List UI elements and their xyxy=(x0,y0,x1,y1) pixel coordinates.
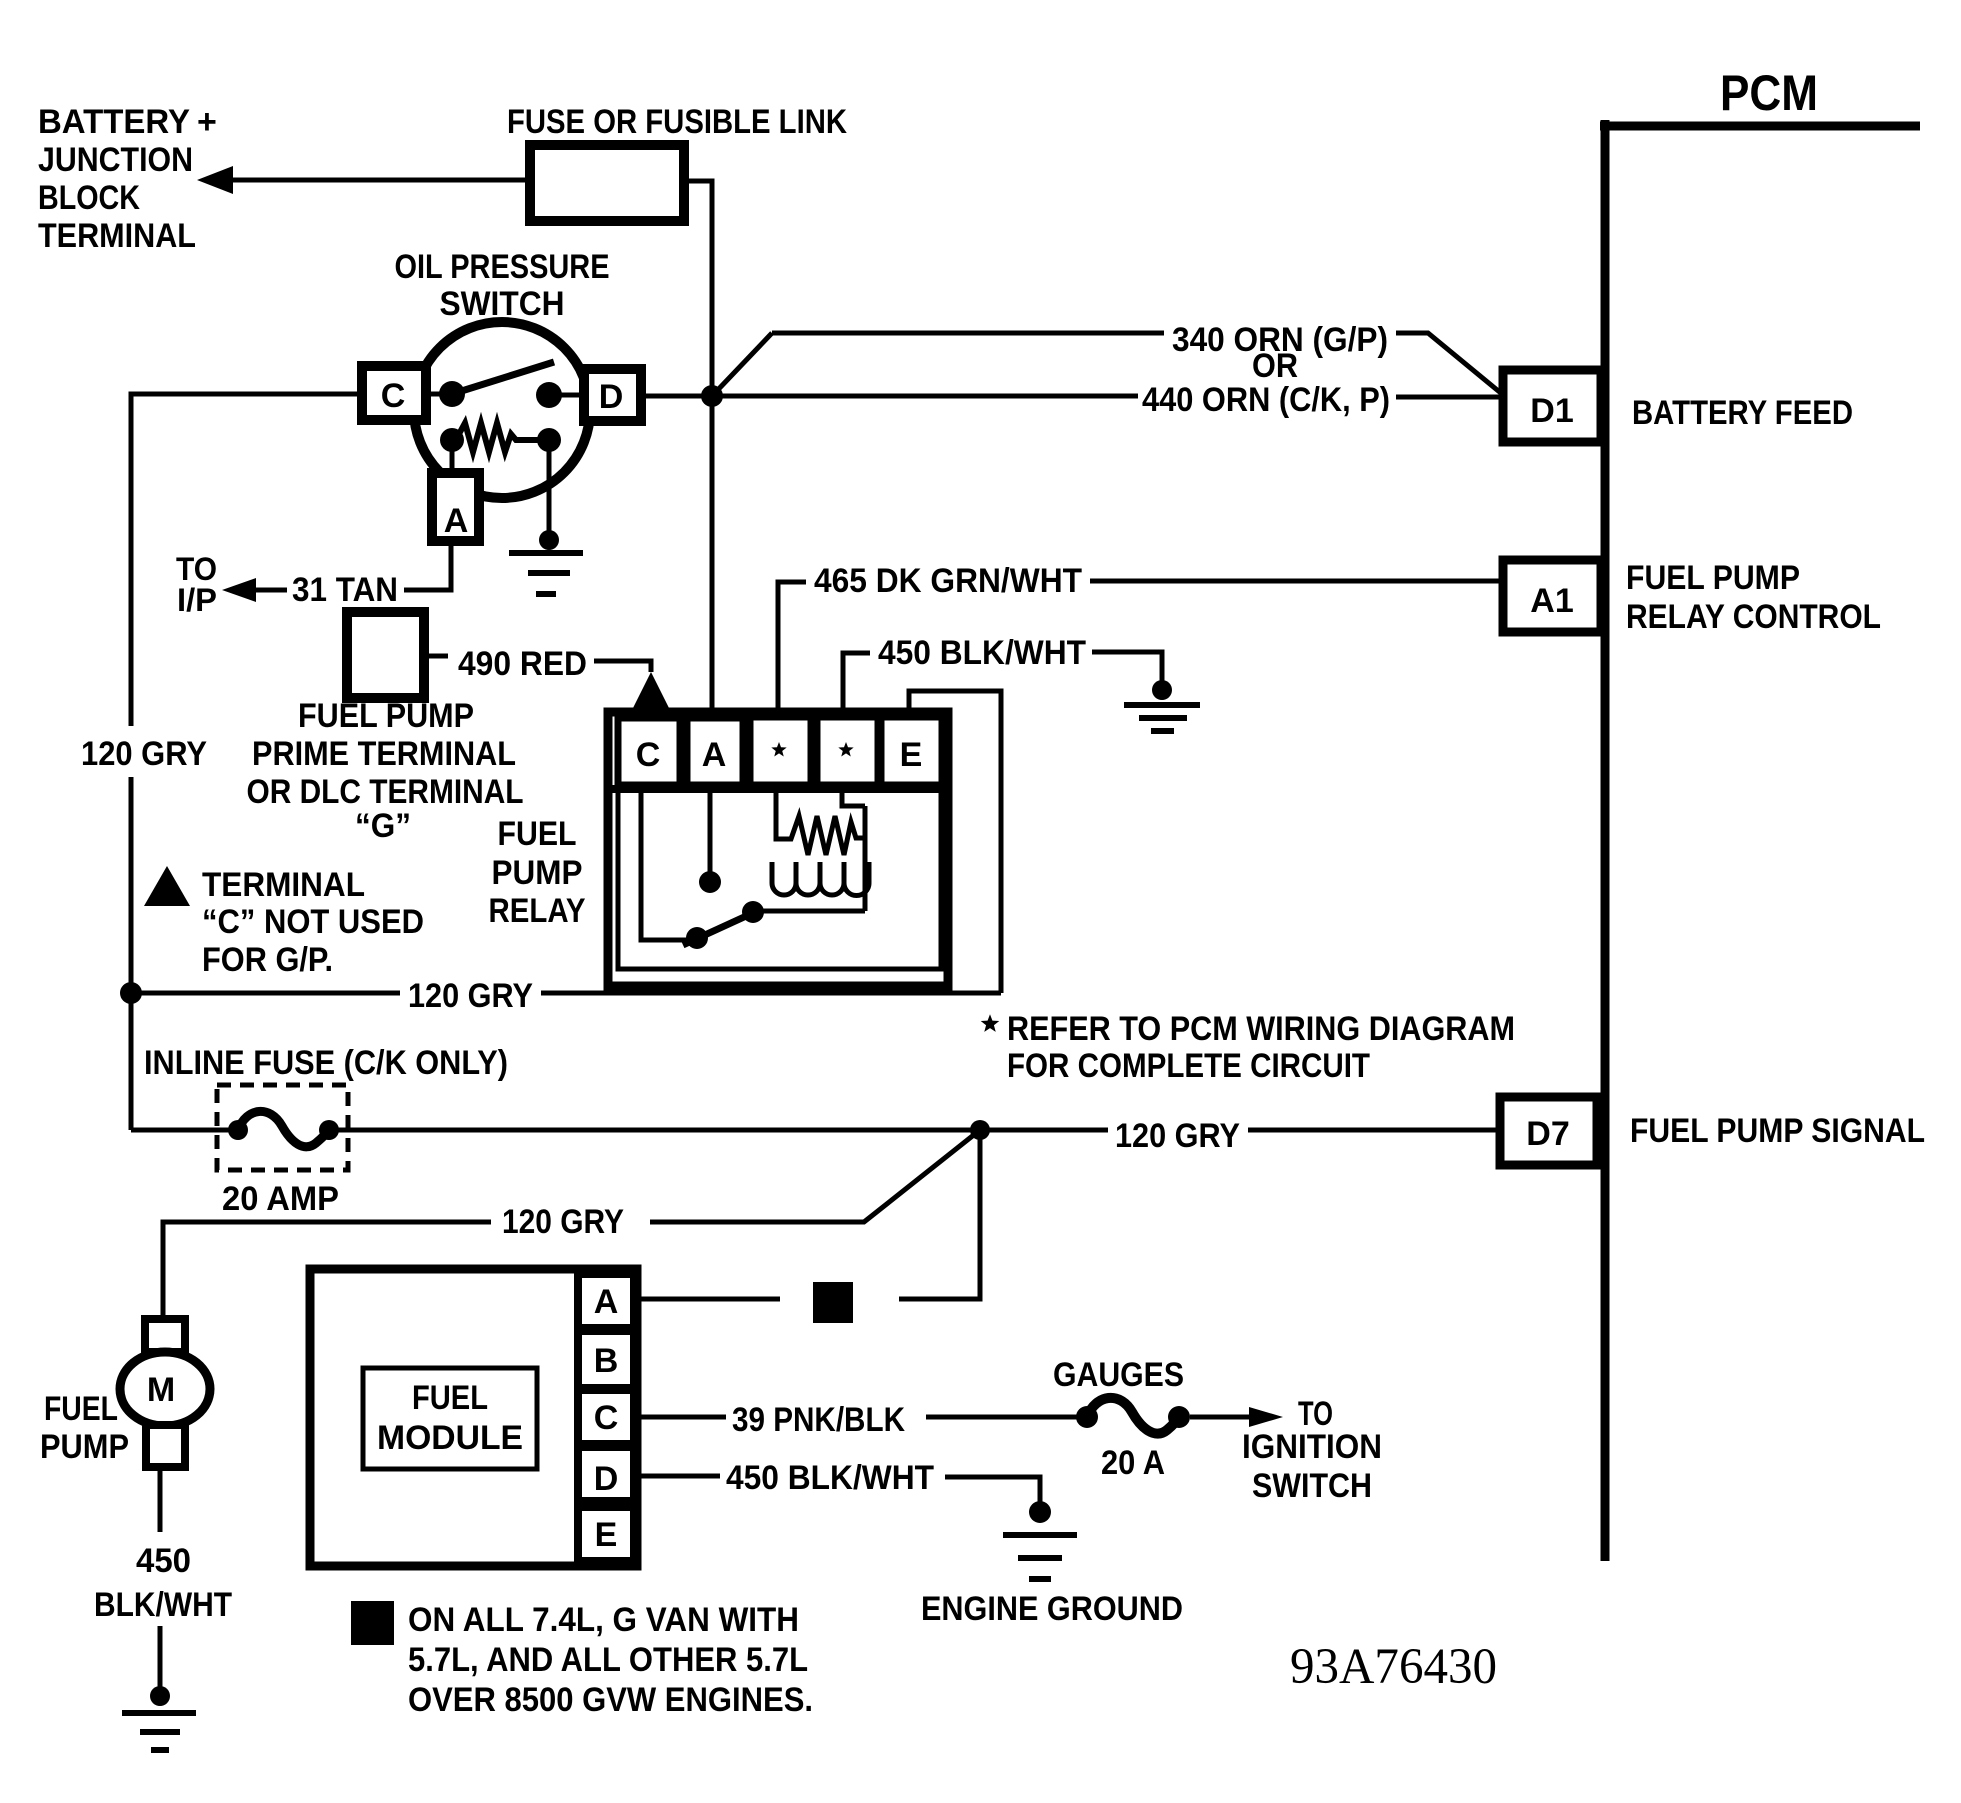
wire 465 DK GRN/WHT stub down to relay coil xyxy=(778,582,806,717)
module terminal E xyxy=(578,1507,634,1561)
svg-text:“G”: “G” xyxy=(355,807,411,845)
relay terminal E xyxy=(881,717,942,785)
connector pin A1 xyxy=(1503,560,1601,632)
svg-text:120 GRY: 120 GRY xyxy=(408,977,533,1015)
terminal D box of oil switch xyxy=(584,369,641,421)
svg-text:D1: D1 xyxy=(1530,392,1573,430)
relay coil xyxy=(772,792,869,896)
svg-text:IGNITION: IGNITION xyxy=(1242,1428,1382,1466)
relay terminal star 1 xyxy=(750,717,811,785)
svg-text:A: A xyxy=(702,736,727,774)
label FUEL PUMP PRIME TERMINAL OR DLC TERMINAL "G" xyxy=(247,697,524,845)
svg-text:450 BLK/WHT: 450 BLK/WHT xyxy=(878,634,1086,672)
svg-text:465 DK GRN/WHT: 465 DK GRN/WHT xyxy=(814,562,1082,600)
module terminal D xyxy=(578,1447,634,1501)
relay internal wire from arm to coil side xyxy=(753,806,865,911)
svg-text:450 BLK/WHT: 450 BLK/WHT xyxy=(726,1459,934,1497)
svg-text:A: A xyxy=(444,502,469,540)
svg-text:E: E xyxy=(595,1516,618,1554)
fuel pump prime terminal square xyxy=(347,612,424,698)
svg-text:B: B xyxy=(594,1342,619,1380)
svg-text:+: + xyxy=(197,103,217,141)
wire oil switch lower-left dot to terminal A xyxy=(450,448,455,478)
wire 450 BLK/WHT to ground xyxy=(1092,652,1162,684)
svg-text:ON ALL 7.4L, G VAN WITH: ON ALL 7.4L, G VAN WITH xyxy=(408,1601,799,1639)
fuel module body xyxy=(310,1269,637,1566)
ground below oil pressure switch xyxy=(509,530,583,594)
PCM module boundary xyxy=(1600,65,1920,1561)
label FUEL PUMP RELAY CONTROL xyxy=(1626,559,1881,636)
wire junction down to module A xyxy=(637,1130,980,1299)
svg-text:OR DLC TERMINAL: OR DLC TERMINAL xyxy=(247,773,524,811)
svg-text:FOR G/P.: FOR G/P. xyxy=(202,941,333,979)
svg-text:PUMP: PUMP xyxy=(40,1428,129,1466)
relay terminal star 2 xyxy=(817,717,878,785)
svg-text:FUEL PUMP: FUEL PUMP xyxy=(1626,559,1800,597)
svg-text:120 GRY: 120 GRY xyxy=(81,735,207,773)
relay K1 FUEL PUMP RELAY label xyxy=(489,815,586,930)
wire relay E up and over to 120 GRY xyxy=(909,691,1001,993)
svg-text:M: M xyxy=(147,1371,175,1409)
wire 465 DK GRN/WHT to PCM A1 xyxy=(1090,579,1503,584)
svg-text:BLK/WHT: BLK/WHT xyxy=(94,1586,232,1624)
svg-text:FUSE OR FUSIBLE LINK: FUSE OR FUSIBLE LINK xyxy=(507,103,847,141)
svg-text:20 A: 20 A xyxy=(1101,1444,1165,1482)
engine ground symbol xyxy=(1003,1501,1077,1579)
note REFER TO PCM WIRING DIAGRAM xyxy=(981,1010,1515,1085)
fuse F1 FUSE OR FUSIBLE LINK xyxy=(507,103,847,221)
fuel pump relay K1 body xyxy=(608,712,948,986)
module terminal B xyxy=(578,1331,634,1388)
wire 31 TAN with arrow xyxy=(222,544,451,609)
junction node on signal wire xyxy=(970,1120,990,1140)
connector pin D1 xyxy=(1503,370,1601,442)
svg-text:OVER 8500 GVW ENGINES.: OVER 8500 GVW ENGINES. xyxy=(408,1681,813,1719)
fuel module inner label box xyxy=(363,1368,537,1469)
svg-text:SWITCH: SWITCH xyxy=(1252,1467,1372,1505)
svg-text:GAUGES: GAUGES xyxy=(1053,1356,1184,1394)
wire module D 450 BLK/WHT to engine ground xyxy=(637,1476,1040,1502)
triangle marker at relay terminal C xyxy=(631,672,671,712)
wire fuel pump signal 120 GRY to D7 xyxy=(131,1128,1503,1133)
svg-text:TERMINAL: TERMINAL xyxy=(202,866,365,904)
svg-text:5.7L, AND ALL OTHER 5.7L: 5.7L, AND ALL OTHER 5.7L xyxy=(408,1641,808,1679)
ground below fuel pump xyxy=(122,1686,196,1750)
svg-text:120 GRY: 120 GRY xyxy=(1115,1117,1240,1155)
svg-text:D: D xyxy=(599,378,624,416)
black square marker on module A wire xyxy=(813,1282,853,1323)
svg-text:39 PNK/BLK: 39 PNK/BLK xyxy=(732,1401,905,1439)
note TERMINAL "C" NOT USED FOR G/P. xyxy=(202,866,424,979)
svg-text:440 ORN (C/K, P): 440 ORN (C/K, P) xyxy=(1142,381,1390,419)
svg-text:BATTERY FEED: BATTERY FEED xyxy=(1632,394,1853,432)
wire fuse to junction and down to relay terminal A xyxy=(684,181,712,717)
inline fuse element xyxy=(228,1111,339,1146)
fuel pump motor M1 xyxy=(120,1319,210,1467)
svg-text:INLINE FUSE (C/K ONLY): INLINE FUSE (C/K ONLY) xyxy=(144,1044,508,1082)
note ON ALL 7.4L engines xyxy=(408,1601,813,1719)
svg-text:C: C xyxy=(636,736,661,774)
junction node at fuse feed xyxy=(701,385,723,407)
gauges fuse element xyxy=(1076,1398,1190,1434)
wire and arrow to ignition switch xyxy=(1190,1407,1283,1427)
connector pin D7 xyxy=(1500,1097,1597,1165)
svg-text:REFER TO PCM WIRING DIAGRAM: REFER TO PCM WIRING DIAGRAM xyxy=(1007,1010,1515,1048)
svg-text:TERMINAL: TERMINAL xyxy=(38,217,196,255)
label TO I/P xyxy=(176,551,217,618)
svg-text:OR: OR xyxy=(1252,347,1298,385)
junction node on left vertical xyxy=(120,982,142,1004)
svg-text:MODULE: MODULE xyxy=(377,1419,523,1457)
svg-text:A1: A1 xyxy=(1530,582,1573,620)
svg-text:D7: D7 xyxy=(1526,1115,1569,1153)
wire label 450 BLK/WHT (pump) xyxy=(94,1542,232,1624)
svg-text:C: C xyxy=(381,377,406,415)
resistor inside oil switch xyxy=(440,423,561,452)
triangle legend marker xyxy=(144,866,190,906)
relay terminal C xyxy=(618,718,680,785)
black square legend marker xyxy=(351,1601,394,1645)
svg-text:JUNCTION: JUNCTION xyxy=(38,141,193,179)
svg-text:20 AMP: 20 AMP xyxy=(222,1180,339,1218)
wire 120 GRY below relay xyxy=(131,991,1001,996)
svg-text:RELAY CONTROL: RELAY CONTROL xyxy=(1626,598,1881,636)
svg-text:“C” NOT USED: “C” NOT USED xyxy=(202,903,424,941)
svg-text:120 GRY: 120 GRY xyxy=(502,1203,624,1241)
label TO IGNITION SWITCH xyxy=(1242,1395,1382,1505)
svg-text:FOR COMPLETE CIRCUIT: FOR COMPLETE CIRCUIT xyxy=(1007,1047,1370,1085)
wire diagonal junction up to 340 ORN wire xyxy=(712,333,772,396)
svg-text:490 RED: 490 RED xyxy=(458,645,587,683)
svg-text:ENGINE GROUND: ENGINE GROUND xyxy=(921,1590,1183,1628)
svg-text:PRIME TERMINAL: PRIME TERMINAL xyxy=(252,735,516,773)
relay internal wire from C to switch contact xyxy=(641,792,690,940)
svg-text:A: A xyxy=(594,1283,619,1321)
svg-text:I/P: I/P xyxy=(177,582,217,618)
module terminal A xyxy=(578,1274,634,1328)
wire from junction diagonal to 120 GRY branch xyxy=(163,1130,980,1319)
label FUEL PUMP (motor) xyxy=(40,1390,129,1466)
inline fuse dashed box xyxy=(217,1085,348,1170)
svg-text:C: C xyxy=(594,1399,619,1437)
svg-text:450: 450 xyxy=(136,1542,191,1580)
relay terminal A xyxy=(687,718,743,785)
node BATTERY + JUNCTION BLOCK TERMINAL label xyxy=(38,103,217,255)
oil switch contact dots and arm xyxy=(424,362,586,408)
svg-text:RELAY: RELAY xyxy=(489,892,586,930)
wire 450 BLK/WHT stub down to relay xyxy=(843,653,870,717)
svg-text:BATTERY: BATTERY xyxy=(38,103,190,141)
svg-text:D: D xyxy=(594,1460,619,1498)
wire module C 39 PNK/BLK to gauges fuse xyxy=(637,1415,1087,1420)
wire motor to ground 450 BLK/WHT xyxy=(158,1463,163,1690)
svg-text:FUEL: FUEL xyxy=(498,815,577,853)
terminal A box of oil switch xyxy=(432,473,479,541)
svg-text:FUEL: FUEL xyxy=(44,1390,118,1428)
svg-text:OIL PRESSURE: OIL PRESSURE xyxy=(395,248,610,286)
relay internal wire from A to contact dot xyxy=(708,792,713,872)
ground at 450 BLK/WHT (relay side) xyxy=(1124,680,1200,731)
svg-text:BLOCK: BLOCK xyxy=(38,179,140,217)
wire oil switch C to left vertical 120 GRY xyxy=(131,394,362,1130)
svg-text:FUEL PUMP: FUEL PUMP xyxy=(298,697,474,735)
module terminal C xyxy=(578,1390,634,1444)
wire 340 ORN to label and diagonal into D1 xyxy=(772,333,1502,394)
svg-text:FUEL: FUEL xyxy=(412,1379,488,1417)
svg-text:31 TAN: 31 TAN xyxy=(292,571,398,609)
oil pressure switch S1 label xyxy=(395,248,610,323)
wire oil switch right dot to ground xyxy=(547,448,552,536)
svg-text:PUMP: PUMP xyxy=(492,854,583,892)
wire battery feed arrow xyxy=(197,166,530,194)
label 490 RED and wire from prime terminal xyxy=(424,645,651,683)
svg-text:93A76430: 93A76430 xyxy=(1290,1639,1497,1695)
oil pressure switch S1 body xyxy=(414,322,590,498)
relay switch arm xyxy=(683,901,764,949)
svg-text:FUEL PUMP SIGNAL: FUEL PUMP SIGNAL xyxy=(1630,1112,1925,1150)
svg-text:PCM: PCM xyxy=(1720,65,1818,121)
svg-text:E: E xyxy=(900,736,923,774)
wire oil switch D to PCM D1 (440 ORN) xyxy=(641,396,1503,397)
terminal C box of oil switch xyxy=(362,366,426,420)
